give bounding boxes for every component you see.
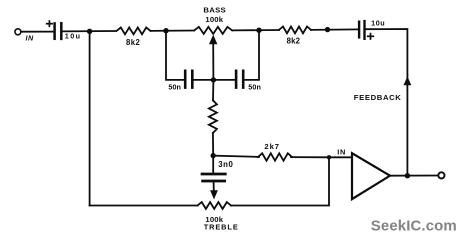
resistor R4 2k7 (258, 153, 292, 160)
junction node output/feedback (405, 173, 410, 178)
svg-text:2k7: 2k7 (264, 142, 280, 151)
svg-text:3n0: 3n0 (218, 160, 233, 169)
input terminal (15, 29, 21, 35)
wire node to cap C3 (212, 156, 214, 173)
svg-text:BASS: BASS (203, 6, 226, 15)
wire from right 50n cap up to bass right end (245, 30, 259, 80)
resistor R1 8k2 (117, 28, 151, 35)
wire into opamp (329, 156, 352, 158)
wire left vertical (89, 31, 91, 205)
svg-text:IN: IN (337, 148, 346, 157)
output terminal (438, 172, 444, 178)
junction node bass right (256, 28, 261, 33)
svg-text:SeekIC.com: SeekIC.com (371, 218, 457, 235)
svg-text:FEEDBACK: FEEDBACK (354, 93, 402, 102)
junction node 50n center (211, 77, 216, 82)
wire (top right corner) (366, 29, 408, 75)
svg-text:8k2: 8k2 (126, 38, 140, 47)
C2 plus sign (368, 34, 374, 39)
wire (151, 30, 195, 32)
svg-text:10u: 10u (371, 19, 385, 28)
capacitor C2 10u (output) (359, 21, 364, 39)
svg-text:50n: 50n (168, 82, 181, 91)
capacitor C1 10u (input) (55, 23, 62, 39)
junction node after C1 (87, 29, 92, 34)
potentiometer BASS 100k body (194, 27, 232, 34)
svg-text:10u: 10u (65, 31, 82, 40)
svg-text:50n: 50n (248, 82, 261, 91)
wire bottom (90, 205, 198, 207)
C1 plus sign (47, 21, 52, 26)
wire 3n0 node to 2k7 (213, 156, 259, 157)
junction node 3n0 (211, 153, 216, 158)
wire wiper stem to vertical resistor (212, 80, 214, 101)
wire bottom right (231, 157, 329, 205)
capacitor C3 3n0 (202, 174, 225, 181)
wire (311, 28, 358, 31)
junction node before C2 (325, 27, 330, 32)
wire from bass left end down (166, 31, 184, 80)
svg-text:100k: 100k (205, 15, 223, 24)
wire between 50n caps (194, 79, 235, 81)
wire 2k7 to opamp input node (291, 156, 329, 158)
capacitor C50b 50n (236, 71, 243, 88)
treble wiper arrowhead (210, 190, 218, 199)
potentiometer TREBLE 100k body (198, 202, 232, 209)
junction node opamp input (327, 155, 331, 159)
wire opamp output (390, 175, 438, 177)
capacitor C50a 50n (185, 71, 192, 88)
resistor R3 (vertical, bass wiper) (209, 100, 217, 133)
wire feedback vertical (406, 75, 408, 175)
svg-text:TREBLE: TREBLE (204, 222, 239, 231)
wire bass wiper stem (212, 44, 214, 80)
feedback arrowhead (404, 76, 412, 85)
svg-text:IN: IN (26, 33, 34, 42)
bass wiper arrowhead (209, 35, 217, 45)
wire (62, 30, 116, 32)
wire (232, 29, 279, 31)
resistor R2 8k2 (279, 27, 311, 34)
wire (21, 31, 53, 33)
junction node bass left (163, 28, 168, 33)
wire cap C3 to treble arrow (213, 182, 215, 190)
op-amp U1 (352, 153, 390, 199)
svg-text:8k2: 8k2 (287, 37, 301, 46)
wire down to 3n0 node (212, 133, 214, 156)
